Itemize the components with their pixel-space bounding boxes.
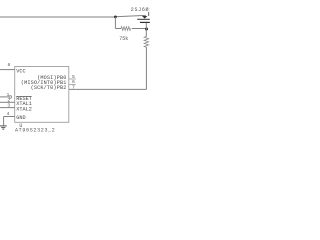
svg-text:3: 3 xyxy=(7,102,10,108)
svg-text:(SCK/T0)PB2: (SCK/T0)PB2 xyxy=(31,85,67,91)
svg-text:7: 7 xyxy=(72,84,75,90)
svg-text:5: 5 xyxy=(72,74,75,80)
svg-text:2: 2 xyxy=(7,97,10,103)
svg-text:VCC: VCC xyxy=(16,68,25,74)
svg-text:6: 6 xyxy=(72,79,75,85)
svg-text:GND: GND xyxy=(16,115,25,121)
svg-text:2SJ6Ø1: 2SJ6Ø1 xyxy=(131,6,150,13)
svg-text:4: 4 xyxy=(7,111,10,117)
svg-text:1: 1 xyxy=(7,92,10,98)
svg-text:AT90S2323_2: AT90S2323_2 xyxy=(15,128,56,134)
svg-text:75k: 75k xyxy=(119,36,128,42)
svg-text:8: 8 xyxy=(7,62,10,68)
svg-text:XTAL2: XTAL2 xyxy=(16,106,32,112)
